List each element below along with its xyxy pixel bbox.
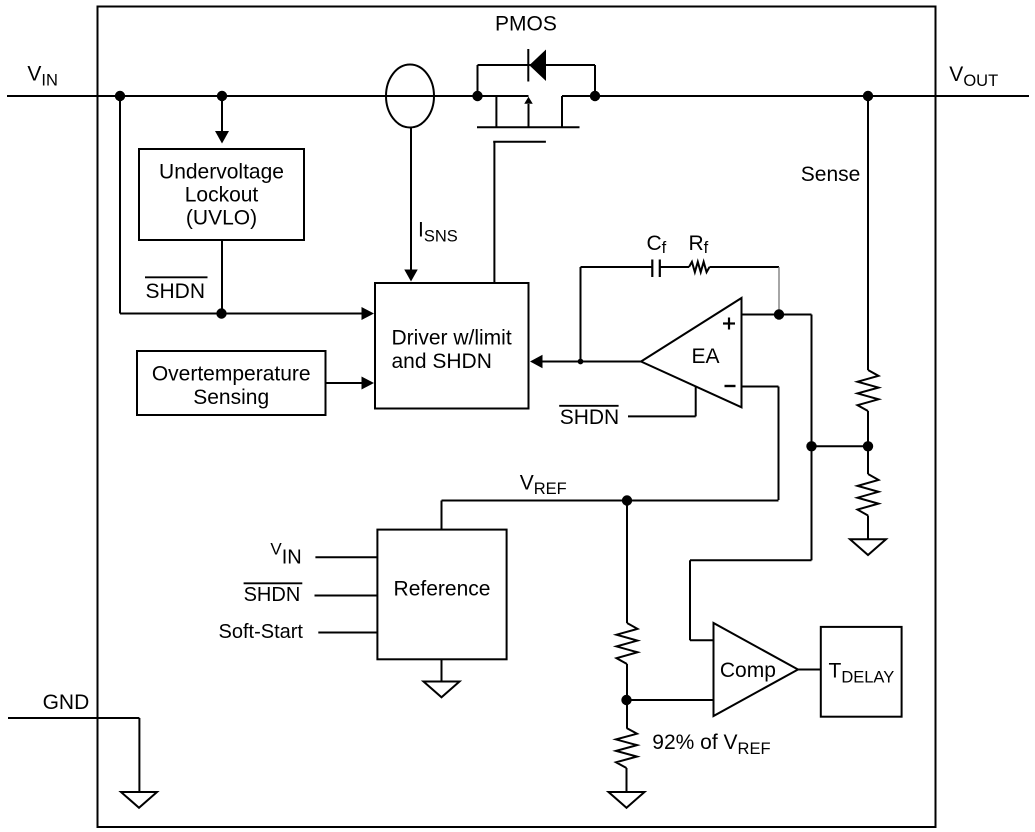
svg-text:EA: EA <box>692 345 720 368</box>
svg-text:and SHDN: and SHDN <box>392 350 492 373</box>
svg-text:Undervoltage: Undervoltage <box>159 160 284 183</box>
svg-text:VREF: VREF <box>520 471 567 498</box>
svg-text:TDELAY: TDELAY <box>829 660 895 687</box>
svg-text:VOUT: VOUT <box>949 63 998 90</box>
svg-text:Soft-Start: Soft-Start <box>219 621 304 643</box>
svg-text:Driver w/limit: Driver w/limit <box>392 326 512 349</box>
svg-text:SHDN: SHDN <box>146 280 206 303</box>
svg-text:VIN: VIN <box>270 540 301 569</box>
svg-text:SHDN: SHDN <box>560 406 620 429</box>
svg-text:Lockout: Lockout <box>185 184 259 207</box>
svg-text:Sense: Sense <box>801 163 861 186</box>
svg-text:GND: GND <box>43 691 90 714</box>
svg-text:VIN: VIN <box>27 63 58 90</box>
svg-text:Sensing: Sensing <box>193 386 269 409</box>
svg-text:Overtemperature: Overtemperature <box>152 363 311 386</box>
svg-text:SHDN: SHDN <box>244 584 301 606</box>
svg-text:Reference: Reference <box>394 578 491 601</box>
svg-text:Rf: Rf <box>689 232 709 257</box>
svg-text:Comp: Comp <box>720 659 776 682</box>
svg-text:92% of VREF: 92% of VREF <box>652 731 770 758</box>
svg-text:(UVLO): (UVLO) <box>186 207 257 230</box>
svg-text:Cf: Cf <box>647 232 667 257</box>
svg-text:ISNS: ISNS <box>418 219 458 246</box>
svg-text:PMOS: PMOS <box>495 13 557 36</box>
